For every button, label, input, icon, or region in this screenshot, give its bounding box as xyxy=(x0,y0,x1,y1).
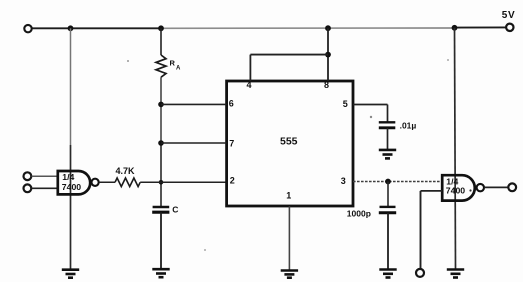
svg-text:C: C xyxy=(172,204,178,214)
svg-text:3: 3 xyxy=(341,176,346,186)
svg-text:7400: 7400 xyxy=(62,182,81,192)
svg-text:7: 7 xyxy=(229,138,234,148)
svg-text:1/4: 1/4 xyxy=(62,172,74,182)
svg-text:7400: 7400 xyxy=(446,185,465,195)
svg-text:.01µ: .01µ xyxy=(400,120,417,130)
svg-text:4.7K: 4.7K xyxy=(116,166,136,176)
svg-text:555: 555 xyxy=(280,136,298,148)
svg-text:A: A xyxy=(176,66,181,72)
svg-text:5: 5 xyxy=(343,99,348,109)
svg-text:8: 8 xyxy=(324,80,329,90)
svg-text:1000p: 1000p xyxy=(347,209,371,219)
svg-text:6: 6 xyxy=(229,99,234,109)
svg-text:4: 4 xyxy=(247,80,252,90)
svg-text:1: 1 xyxy=(286,191,291,201)
svg-text:R: R xyxy=(170,59,176,68)
svg-text:5V: 5V xyxy=(502,10,515,21)
svg-text:2: 2 xyxy=(230,176,235,186)
